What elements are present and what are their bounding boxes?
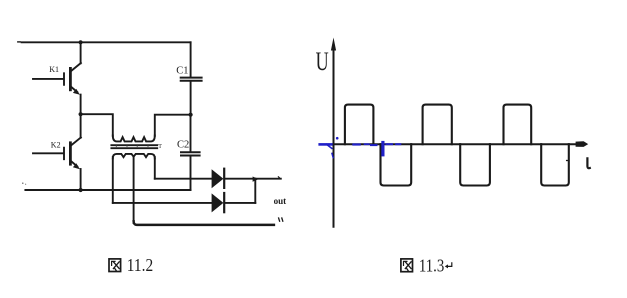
- wire top rail to C1: [190, 42, 192, 76]
- stray tick on pulse edge: [567, 160, 569, 162]
- stray dots bottom left: [22, 183, 23, 184]
- wire node B to transformer primary right: [155, 115, 191, 136]
- axis U vertical: [333, 48, 335, 227]
- caption figure 11.2: [109, 255, 153, 275]
- wire cathode bus vertical: [254, 179, 256, 203]
- wire D2 cathode to cathode bus: [225, 202, 255, 204]
- capacitor C2: [177, 115, 200, 190]
- svg-text:K1: K1: [49, 65, 59, 74]
- wire node A to transformer primary left: [81, 114, 113, 136]
- node B (capacitor midpoint): [189, 113, 193, 117]
- node top rail junction: [79, 40, 83, 44]
- svg-text:11.2: 11.2: [127, 255, 153, 275]
- wire D1 cathode to output plus: [225, 178, 281, 180]
- caption figure 11.3: [401, 255, 452, 275]
- secondary left tap down: [112, 157, 114, 203]
- wire C1 to node B: [190, 82, 192, 115]
- node A (bridge midpoint): [79, 112, 83, 116]
- secondary winding: [113, 154, 155, 159]
- stray mark left of top rail: [18, 41, 20, 43]
- diode D1 anode wire: [155, 178, 212, 180]
- junction arrow on output line: [253, 177, 259, 182]
- wire output negative from center tap: [134, 221, 274, 225]
- wire bottom negative rail: [25, 189, 190, 191]
- waveform square wave: [345, 105, 569, 186]
- diode D2: [212, 193, 225, 212]
- label t: [587, 158, 589, 168]
- core: [111, 144, 157, 146]
- diode D1: [212, 169, 225, 189]
- transformer T: [111, 136, 162, 224]
- transistor K2 (IGBT): [33, 114, 81, 190]
- svg-text:out: out: [274, 196, 287, 206]
- return mark: [448, 263, 452, 267]
- quote marks near output negative end: [279, 218, 280, 221]
- svg-text:T: T: [158, 144, 162, 150]
- svg-text:11.3: 11.3: [419, 255, 445, 275]
- svg-text:C1: C1: [176, 66, 188, 77]
- svg-text:C2: C2: [177, 139, 189, 150]
- tick at output plus end: [278, 177, 279, 178]
- transistor K1 (IGBT): [33, 42, 81, 114]
- svg-text:U: U: [316, 47, 329, 76]
- secondary center tap down: [133, 157, 135, 224]
- secondary right tap down: [154, 157, 156, 179]
- capacitor C1: [176, 66, 201, 81]
- node bottom rail junction: [79, 188, 83, 192]
- axis t horizontal: [334, 143, 579, 145]
- svg-text:K2: K2: [51, 140, 61, 149]
- diode D2 anode wire: [113, 202, 212, 204]
- primary winding: [113, 136, 155, 142]
- wire top positive rail: [22, 41, 191, 43]
- blue pen marks near origin: [320, 137, 401, 158]
